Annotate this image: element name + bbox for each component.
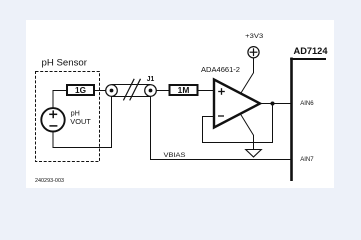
- label VBIAS: [164, 152, 187, 159]
- label J1: [147, 76, 155, 83]
- op-amp V- pin wire: [241, 114, 254, 149]
- op-amp feedback loop wire: [203, 104, 273, 143]
- svg-text:pH Sensor: pH Sensor: [42, 58, 88, 69]
- wire sensor return (source bottom to J1 left circle): [53, 96, 112, 147]
- svg-text:J1: J1: [147, 76, 155, 83]
- VBIAS wire: [151, 96, 292, 159]
- ground: [246, 150, 262, 158]
- pH sensor dashed enclosure: [36, 72, 100, 162]
- wire 1G to J1: [95, 90, 106, 92]
- svg-text:pH: pH: [71, 111, 80, 118]
- label pH VOUT: [70, 111, 91, 127]
- wire J1 to 1M: [156, 90, 169, 92]
- svg-text:AD7124: AD7124: [294, 46, 329, 56]
- svg-text:AIN7: AIN7: [300, 156, 314, 163]
- svg-text:+3V3: +3V3: [245, 33, 263, 40]
- svg-text:240293-003: 240293-003: [35, 178, 64, 184]
- AD7124 part boundary: [290, 58, 326, 182]
- svg-text:ADA4661-2: ADA4661-2: [201, 65, 240, 74]
- resistor 1M: [170, 85, 198, 95]
- svg-text:1M: 1M: [178, 85, 190, 95]
- op-amp V+ pin wire: [241, 58, 254, 93]
- svg-text:1G: 1G: [75, 85, 86, 95]
- junction node: [271, 102, 275, 106]
- voltage source VOUT: [41, 108, 64, 131]
- output wire to AIN6: [260, 103, 291, 105]
- label +3V3: [245, 33, 263, 40]
- op-amp U1 ADA4661-2: [214, 80, 260, 128]
- label AD7124: [294, 46, 329, 56]
- wire source top to 1G: [53, 91, 67, 108]
- resistor 1G: [67, 85, 94, 95]
- connector J1: [106, 79, 157, 101]
- pin AIN7: [300, 156, 314, 163]
- svg-text:AIN6: AIN6: [300, 100, 314, 107]
- svg-text:VOUT: VOUT: [70, 119, 91, 126]
- svg-text:VBIAS: VBIAS: [164, 152, 187, 159]
- wire 1M to op-amp + input: [198, 90, 215, 92]
- pH Sensor box label: [42, 58, 88, 69]
- figure number 240293-003: [35, 178, 64, 184]
- label ADA4661-2: [201, 65, 240, 74]
- pin AIN6: [300, 100, 314, 107]
- +3V3 supply: [248, 47, 259, 58]
